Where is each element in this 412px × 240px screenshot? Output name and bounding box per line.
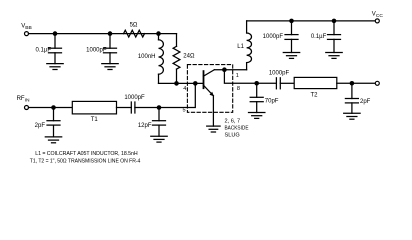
ground <box>45 137 61 143</box>
ground <box>326 53 342 59</box>
node E (base/input junction) <box>193 81 198 86</box>
ground <box>344 113 360 119</box>
svg-text:1000pF: 1000pF <box>269 70 290 76</box>
wire collector to L1 <box>214 69 246 71</box>
capacitor 0.1uF vcc <box>311 21 341 53</box>
resistor R1 5ohm <box>124 23 145 37</box>
wire 70pF node to C8 <box>257 82 277 84</box>
svg-text:BACKSIDE: BACKSIDE <box>225 126 249 132</box>
label pins 2,6,7 backside slug <box>225 119 249 139</box>
ground <box>102 64 118 70</box>
svg-text:1: 1 <box>236 73 239 79</box>
capacitor 1000pF vcc <box>263 21 298 53</box>
node G (12pF tap) <box>157 105 162 110</box>
svg-text:100nH: 100nH <box>138 54 156 60</box>
inductor L1 <box>237 21 251 70</box>
node A (0.1uF tap) <box>53 31 58 36</box>
transmission line T2 <box>294 77 337 98</box>
ground <box>151 136 167 142</box>
svg-text:2pF: 2pF <box>35 123 46 129</box>
terminal VCC <box>372 12 384 23</box>
svg-text:1000pF: 1000pF <box>86 48 107 54</box>
terminal RFOUT <box>375 81 379 85</box>
svg-text:4: 4 <box>183 86 186 92</box>
svg-text:8: 8 <box>237 86 240 92</box>
svg-text:2pF: 2pF <box>360 99 371 105</box>
svg-text:T1, T2 = 1", 50Ω TRANSMISSION: T1, T2 = 1", 50Ω TRANSMISSION LINE ON FR… <box>30 158 141 164</box>
svg-text:L1 = COILCRAFT A05T INDUCTOR,: L1 = COILCRAFT A05T INDUCTOR, 18.5nH <box>35 151 138 157</box>
node C (bias divider top) <box>156 31 161 36</box>
capacitor 12pF <box>138 108 166 137</box>
node I (1000pF tap) <box>289 19 294 24</box>
svg-text:0.1µF: 0.1µF <box>36 48 52 54</box>
terminal VBB <box>21 24 32 36</box>
wire T1 to C4 <box>117 107 132 109</box>
node J (0.1uF tap) <box>332 19 337 24</box>
terminal RFIN <box>17 96 30 109</box>
svg-text:2, 6, 7: 2, 6, 7 <box>225 119 241 125</box>
svg-text:5Ω: 5Ω <box>130 23 138 29</box>
ground (backside slug) <box>207 126 220 132</box>
svg-text:SLUG: SLUG <box>225 133 240 139</box>
wire C4 to 12pF node <box>135 107 159 109</box>
wire VBB rail <box>29 33 177 35</box>
resistor R2 24ohm <box>173 34 195 84</box>
wire VCC rail <box>247 20 376 22</box>
capacitor 2pF output <box>345 83 370 113</box>
svg-text:12pF: 12pF <box>138 123 152 129</box>
IC dashed outline U1 <box>182 65 240 114</box>
svg-text:1000pF: 1000pF <box>263 34 284 40</box>
transistor Q1 <box>204 70 215 97</box>
svg-text:24Ω: 24Ω <box>183 54 195 60</box>
wire collector down to pin8 out <box>224 70 256 84</box>
transmission line T1 <box>72 101 116 123</box>
ground <box>249 113 265 119</box>
node D (bias junction) <box>174 81 179 86</box>
capacitor C8 1000pF output <box>269 70 290 88</box>
node F (2pF tap) <box>51 105 56 110</box>
wire emitter to ground <box>212 96 214 126</box>
capacitor 2pF input <box>35 108 60 137</box>
svg-text:T1: T1 <box>91 117 99 123</box>
wire RFIN to T1 <box>29 107 73 109</box>
capacitor C2 1000pF <box>86 34 116 64</box>
node B (1000pF tap) <box>108 31 113 36</box>
svg-text:5: 5 <box>182 108 185 114</box>
svg-text:L1: L1 <box>237 44 244 50</box>
note text <box>30 151 141 165</box>
wire C8 to T2 <box>280 82 294 84</box>
wire T2 to output <box>337 82 376 84</box>
svg-text:0.1µF: 0.1µF <box>311 34 327 40</box>
ground <box>283 53 299 59</box>
wire input feed up to base <box>159 83 195 107</box>
capacitor C1 0.1uF <box>36 34 62 64</box>
node K (70pF tap) <box>254 81 259 86</box>
wire bias node to base <box>159 82 204 84</box>
svg-text:1000pF: 1000pF <box>124 95 145 101</box>
capacitor 70pF <box>250 83 279 112</box>
inductor 100nH <box>138 34 164 84</box>
svg-text:T2: T2 <box>310 93 318 99</box>
node L (2pF tap) <box>350 81 355 86</box>
capacitor C4 1000pF series <box>124 95 145 113</box>
svg-text:70pF: 70pF <box>265 99 279 105</box>
ground <box>47 64 63 70</box>
node H (collector junction) <box>222 67 227 72</box>
